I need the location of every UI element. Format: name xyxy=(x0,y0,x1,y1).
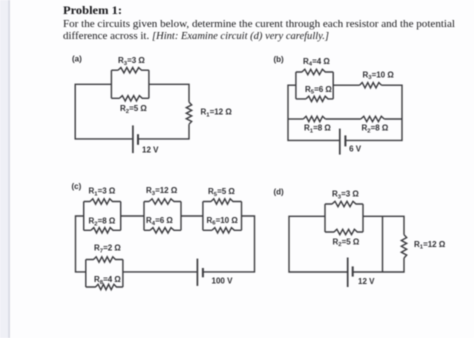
wire parallel-box left edge (d) xyxy=(324,204,326,232)
resistor R3 (b) xyxy=(360,83,382,88)
wire left rail (d) xyxy=(289,216,347,272)
wire short-circuit vertical (d) xyxy=(382,216,384,272)
wire mid stub left (b) xyxy=(288,118,303,120)
battery 100V (c) xyxy=(196,259,198,286)
resistor R5 xyxy=(296,96,333,101)
resistor R4 xyxy=(296,69,333,74)
left page-edge strip xyxy=(0,0,9,338)
svg-text:(d): (d) xyxy=(274,188,285,197)
svg-text:For the circuits given below,: For the circuits given below, determine … xyxy=(63,19,455,30)
svg-text:(c): (c) xyxy=(72,182,82,191)
resistor R8 (c) xyxy=(86,284,123,289)
resistor R3 xyxy=(111,68,148,73)
wire box3 left edge (c) xyxy=(202,202,204,231)
svg-text:difference across it. [Hint: E: difference across it. [Hint: Examine cir… xyxy=(63,31,329,42)
resistor R3 (c) xyxy=(144,199,181,204)
wire top-right (a) xyxy=(149,84,189,102)
wire box3 right edge (c) xyxy=(241,202,243,231)
wire stub box1-box2 (c) xyxy=(121,215,144,217)
wire box2 left edge (c) xyxy=(143,202,145,231)
resistor R2 (b) xyxy=(361,116,384,121)
battery 12V (d) xyxy=(347,258,349,288)
wire bottom between box4 and battery (c) xyxy=(123,271,197,273)
battery 12V (a) xyxy=(132,125,134,153)
svg-text:Problem 1:: Problem 1: xyxy=(63,5,122,17)
wire bottom-right (d) xyxy=(353,258,404,272)
wire mid center (b) xyxy=(325,118,361,120)
resistor R3 (d) xyxy=(325,201,363,206)
resistor R5 (c) xyxy=(203,199,242,204)
wire right rail (b) xyxy=(346,85,402,140)
resistor R7 (c) xyxy=(86,257,123,262)
svg-text:12 V: 12 V xyxy=(142,146,159,155)
resistor R1 (d) xyxy=(401,235,406,258)
svg-text:(a): (a) xyxy=(72,55,82,64)
wire right rail (c) xyxy=(203,216,254,272)
wire bottom-right (a) xyxy=(138,124,189,139)
wire parallel-box left edge (a) xyxy=(110,70,112,98)
resistor R1 (b) xyxy=(303,116,325,121)
wire stub box2-box3 (c) xyxy=(181,215,203,217)
wire top-right (d) xyxy=(363,216,404,234)
wire left rail (c) xyxy=(76,216,86,272)
wire mid stub right (b) xyxy=(384,118,402,120)
wire box2 right edge (c) xyxy=(180,202,182,231)
wire left rail (b) xyxy=(288,85,339,140)
resistor R4 (c) xyxy=(144,228,181,233)
resistor R2 xyxy=(111,96,148,101)
svg-text:(b): (b) xyxy=(274,55,285,64)
svg-text:12 V: 12 V xyxy=(358,277,375,286)
resistor R1 (c) xyxy=(84,199,121,204)
wire parallel-box right edge (a) xyxy=(148,70,150,98)
wire box4 left edge (c) xyxy=(85,260,87,288)
wire box4 right edge (c) xyxy=(122,260,124,288)
wire parallel-box right edge (d) xyxy=(362,204,364,232)
resistor R2 (c) xyxy=(84,228,121,233)
resistor R6 (c) xyxy=(203,228,242,233)
resistor R2 (d) xyxy=(325,229,363,234)
wire box1 right edge (c) xyxy=(120,202,122,231)
svg-text:100 V: 100 V xyxy=(212,277,234,286)
wire top-right stub to R3 (b) xyxy=(333,84,359,86)
battery 6V (b) xyxy=(339,129,341,155)
svg-text:6 V: 6 V xyxy=(349,145,362,154)
wire parallel-box left edge (b) xyxy=(295,72,297,99)
wire left rail and bottom-left (a) xyxy=(75,84,132,139)
wire parallel-box right edge (b) xyxy=(332,72,334,99)
wire box1 left edge (c) xyxy=(83,202,85,231)
resistor R1 (a) xyxy=(186,102,191,124)
